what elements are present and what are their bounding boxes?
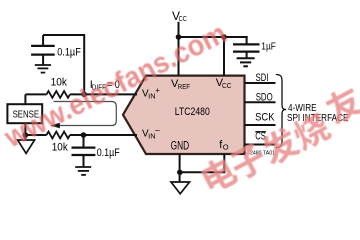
svg-text:GND: GND xyxy=(171,141,190,153)
svg-text:10k: 10k xyxy=(51,77,68,89)
ground for C1 xyxy=(237,58,255,66)
ground triangle bottom xyxy=(171,182,190,194)
svg-text:LTC2480: LTC2480 xyxy=(175,106,210,118)
arrowhead of loop xyxy=(50,123,60,129)
brace 4-wire group xyxy=(276,75,286,148)
capacitor C3 0.1uF bottom xyxy=(83,135,85,148)
svg-text:CC: CC xyxy=(179,14,188,23)
resistor R1 10k xyxy=(47,91,70,98)
op-amp U1 LTC2480 body xyxy=(123,76,245,154)
wire R1 to VIN+ xyxy=(70,93,137,95)
node GND junction xyxy=(177,170,183,176)
svg-text:+: + xyxy=(155,86,160,95)
pin SDO xyxy=(245,101,276,103)
svg-text:SDO: SDO xyxy=(256,91,273,103)
svg-text:0.1µF: 0.1µF xyxy=(57,46,81,58)
node junction at VREF branch xyxy=(176,34,182,40)
svg-text:1µF: 1µF xyxy=(261,41,276,53)
SENSE box xyxy=(7,104,42,123)
wire to VCC pin xyxy=(223,37,225,76)
wire SENSE bottom xyxy=(24,123,26,140)
wire R2 to VIN- xyxy=(70,134,137,136)
node VIN- junction xyxy=(81,132,87,138)
wire C2 top to VIN+ node xyxy=(43,35,84,94)
capacitor C1 1uF xyxy=(233,43,260,45)
node SENSE bottom junction xyxy=(23,132,29,138)
ground for C2 xyxy=(35,65,51,73)
svg-text:10k: 10k xyxy=(52,141,68,153)
svg-text:−: − xyxy=(155,126,160,136)
pin SDI xyxy=(245,82,276,84)
wire VCC horizontal rail xyxy=(179,36,248,38)
svg-text:CC: CC xyxy=(222,81,232,90)
svg-text:SDI: SDI xyxy=(256,72,269,84)
capacitor C2 0.1uF top-left xyxy=(42,35,44,46)
wire down to C1 xyxy=(246,36,248,44)
node junction at VCC branch xyxy=(221,34,227,40)
node VIN+ junction xyxy=(81,92,87,98)
resistor R2 10k xyxy=(47,132,70,139)
wire VCC vertical to VREF pin xyxy=(178,22,180,76)
watermark chinese characters xyxy=(199,83,360,195)
ground triangle at SENSE xyxy=(18,140,35,153)
wire GND pin down xyxy=(179,154,181,182)
svg-text:SCK: SCK xyxy=(255,112,275,124)
wire SENSE to R1 xyxy=(25,93,46,95)
svg-text:REF: REF xyxy=(178,82,191,91)
svg-text:0.1µF: 0.1µF xyxy=(97,147,120,159)
current loop IDIFF xyxy=(54,102,117,126)
svg-text:O: O xyxy=(223,143,229,152)
ground for C3 xyxy=(75,167,91,175)
wire SENSE top xyxy=(24,94,26,104)
wire fO pin down xyxy=(180,154,225,172)
pin SCK xyxy=(245,124,276,126)
wire SENSE to R2 xyxy=(25,134,46,136)
pin CS with overbar xyxy=(245,144,276,146)
